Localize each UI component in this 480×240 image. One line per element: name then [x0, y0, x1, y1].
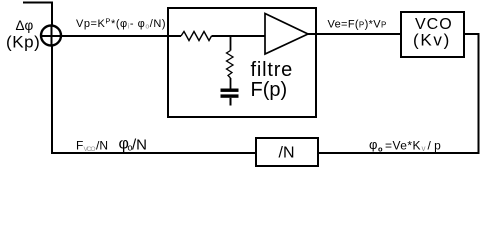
op-amp U2 filter amplifier [265, 14, 308, 55]
wire: Vp from phase comparator to filter [61, 35, 181, 37]
svg-text:=Ve*K: =Ve*K [385, 139, 421, 153]
svg-text:/N: /N [132, 137, 147, 154]
svg-text:F: F [76, 139, 83, 153]
VCO box U3 [401, 12, 464, 57]
label: phi-o/N [119, 136, 148, 154]
wire: node to shunt resistor R2 [230, 36, 232, 51]
svg-text:(Kv): (Kv) [413, 31, 451, 50]
svg-text:o: o [378, 145, 383, 154]
wire: Ve op-amp output to VCO [308, 33, 401, 35]
svg-text:φ: φ [369, 137, 377, 152]
svg-text:/N: /N [279, 145, 295, 162]
label: Fvco/N [76, 139, 108, 154]
svg-text:/N: /N [96, 139, 108, 153]
svg-text:F(p): F(p) [251, 79, 288, 101]
resistor R1 series [181, 32, 212, 41]
capacitor C1 top plate [221, 89, 239, 92]
wire: R1 output to op-amp input [212, 35, 266, 37]
wire: R2 to capacitor C1 [230, 78, 232, 89]
svg-text:v: v [422, 144, 426, 153]
wire: C1 bottom lead [230, 98, 232, 106]
svg-text:Vp=KP*(φi- φo/N): Vp=KP*(φi- φo/N) [76, 17, 166, 31]
divider U4 box /N [256, 138, 318, 166]
svg-text:Δφ: Δφ [16, 18, 34, 33]
wire: VCO output feedback right and bottom [318, 34, 479, 153]
wire: reference input stub top-left [23, 3, 52, 26]
resistor R2 shunt [227, 51, 234, 79]
svg-text:VCO: VCO [84, 146, 96, 153]
capacitor C1 bottom plate [221, 94, 239, 97]
svg-text:(Kp): (Kp) [6, 33, 40, 52]
wire: divider output to phase comparator [52, 46, 256, 153]
filter box [168, 8, 316, 117]
svg-text:filtre: filtre [251, 59, 294, 81]
summing junction U1 phase comparator (Kp) [41, 25, 62, 46]
svg-text:Ve=F(P)*VP: Ve=F(P)*VP [328, 19, 387, 31]
label: phi-o equation [369, 137, 441, 154]
svg-text:/ p: / p [428, 139, 442, 153]
